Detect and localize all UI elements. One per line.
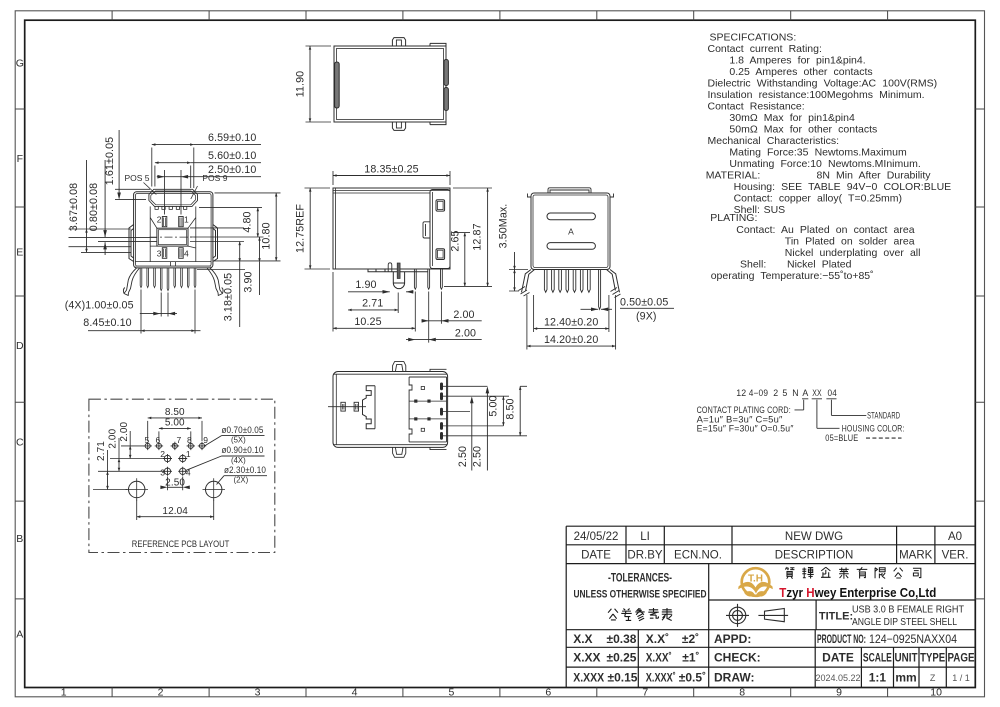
side view base strip xyxy=(368,269,428,272)
svg-text:8.45±0.10: 8.45±0.10 xyxy=(83,317,131,329)
logo wings xyxy=(738,582,773,594)
right edge pin pads xyxy=(440,383,443,440)
svg-text:UNIT: UNIT xyxy=(895,651,919,665)
svg-text:X.XX: X.XX xyxy=(573,651,600,665)
svg-text:Unmating Force:10 Newtoms.MI: Unmating Force:10 Newtoms.MInimum. xyxy=(729,158,920,170)
svg-text:A: A xyxy=(568,227,574,237)
specifications text block xyxy=(706,32,951,283)
top view top tab xyxy=(392,38,405,46)
svg-text:11.90: 11.90 xyxy=(295,71,307,97)
svg-text:POS 9: POS 9 xyxy=(202,173,227,183)
svg-text:4: 4 xyxy=(184,249,189,259)
svg-text:±0.38: ±0.38 xyxy=(607,632,637,646)
VIEW 4: rear view of connector xyxy=(498,188,675,350)
svg-text:USB 3.0 B FEMALE RIGHT: USB 3.0 B FEMALE RIGHT xyxy=(852,604,964,616)
svg-text:ECN.NO.: ECN.NO. xyxy=(674,550,722,562)
bottom view body xyxy=(333,372,448,448)
svg-text:(9X): (9X) xyxy=(636,311,657,323)
dim 18.35±0.25 xyxy=(333,171,450,185)
third angle projection symbol: cone xyxy=(758,609,788,622)
title block table grid xyxy=(566,526,975,687)
svg-text:Insulation resistance:100Mego: Insulation resistance:100Megohms Minimum… xyxy=(708,89,925,101)
dimension 11.90 xyxy=(306,46,332,122)
svg-text:10.25: 10.25 xyxy=(354,316,381,328)
svg-text:1.61±0.05: 1.61±0.05 xyxy=(104,137,116,185)
pcb holes row 2 (pins 2,1) xyxy=(163,454,187,463)
svg-text:(4X): (4X) xyxy=(231,456,246,465)
svg-text:(5X): (5X) xyxy=(231,435,246,444)
tolerance table chinese caption (drawn glyphs) xyxy=(608,608,672,621)
svg-text:24/05/22: 24/05/22 xyxy=(574,531,619,543)
svg-text:2: 2 xyxy=(773,388,778,398)
svg-text:8.50: 8.50 xyxy=(165,407,185,418)
svg-text:3.90: 3.90 xyxy=(243,271,255,292)
pcb dash-dot border xyxy=(89,399,275,552)
shell bottom interior lines xyxy=(135,262,211,267)
svg-text:1 / 1: 1 / 1 xyxy=(952,673,970,683)
contact pads xyxy=(414,400,417,403)
svg-text:2: 2 xyxy=(157,215,162,225)
svg-text:8: 8 xyxy=(739,687,745,699)
svg-text:DATE: DATE xyxy=(822,651,854,665)
svg-text:8: 8 xyxy=(187,435,192,445)
part number breakdown xyxy=(697,388,905,443)
third angle projection symbol: circle-cross xyxy=(726,604,749,627)
svg-text:NEW DWG: NEW DWG xyxy=(785,531,843,543)
leader lines to dims xyxy=(443,386,527,436)
top view bottom tab xyxy=(392,122,405,130)
dim 12.75REF xyxy=(305,188,331,269)
rear skirt left xyxy=(522,270,535,293)
cavity side walls xyxy=(150,206,196,261)
board lock peg xyxy=(393,272,404,289)
svg-text:±1˚: ±1˚ xyxy=(682,651,699,665)
title text xyxy=(852,604,964,629)
svg-text:4.80: 4.80 xyxy=(242,211,254,232)
svg-text:7: 7 xyxy=(642,687,648,699)
svg-text:2.00: 2.00 xyxy=(455,328,476,340)
svg-text:A0: A0 xyxy=(948,531,962,543)
svg-text:MARK: MARK xyxy=(899,550,933,562)
svg-text:T.H: T.H xyxy=(748,574,763,585)
svg-text:2: 2 xyxy=(158,687,164,699)
svg-text:DATE: DATE xyxy=(581,550,611,562)
svg-text:12.04: 12.04 xyxy=(162,506,188,517)
svg-text:2024.05.22: 2024.05.22 xyxy=(815,673,860,683)
svg-text:124−0925NAXX04: 124−0925NAXX04 xyxy=(869,634,958,646)
svg-text:5.00: 5.00 xyxy=(488,395,500,416)
front shell outer xyxy=(134,192,213,268)
svg-text:B: B xyxy=(16,533,23,545)
side view body xyxy=(333,188,450,269)
svg-text:Tzyr Hwey Enterprise Co,Ltd: Tzyr Hwey Enterprise Co,Ltd xyxy=(779,585,936,600)
svg-text:E=15u″ F=30u″ O=0.5u″: E=15u″ F=30u″ O=0.5u″ xyxy=(697,424,794,434)
svg-text:MATERIAL:: MATERIAL: xyxy=(706,170,761,182)
svg-text:X.XX˚: X.XX˚ xyxy=(646,651,672,665)
svg-text:Contact Resistance:: Contact Resistance: xyxy=(708,101,805,113)
top view body xyxy=(334,46,446,122)
contact 1 xyxy=(179,217,184,227)
pcb row extension lines xyxy=(93,446,164,490)
svg-text:14.20±0.20: 14.20±0.20 xyxy=(544,334,598,346)
svg-text:3: 3 xyxy=(157,249,162,259)
top view right corner steps xyxy=(430,43,446,124)
svg-text:DESCRIPTION: DESCRIPTION xyxy=(775,550,854,562)
dim 8.50 xyxy=(519,386,521,436)
svg-text:9: 9 xyxy=(836,687,842,699)
svg-text:Mating Force:35 Newtoms.Maxi: Mating Force:35 Newtoms.Maximum xyxy=(729,147,907,159)
svg-text:Nickel underplating over al: Nickel underplating over all xyxy=(785,247,921,259)
border column ticks bottom xyxy=(112,688,888,697)
rear pins xyxy=(544,270,590,293)
svg-text:0.50±0.05: 0.50±0.05 xyxy=(620,296,668,308)
svg-text:2.71: 2.71 xyxy=(96,441,107,461)
svg-text:10.80: 10.80 xyxy=(260,222,272,249)
svg-text:X.X˚: X.X˚ xyxy=(646,632,669,646)
svg-text:1: 1 xyxy=(184,215,189,225)
company name chinese (drawn glyphs) xyxy=(785,567,920,579)
svg-text:REFERENCE PCB LAYOUT: REFERENCE PCB LAYOUT xyxy=(132,539,230,550)
svg-text:3.18±0.05: 3.18±0.05 xyxy=(223,273,235,321)
svg-text:±0.15: ±0.15 xyxy=(608,671,638,685)
svg-text:10: 10 xyxy=(930,687,942,699)
bottom view tab bottom xyxy=(393,447,406,457)
svg-text:(4X)1.00±0.05: (4X)1.00±0.05 xyxy=(65,300,134,312)
right extension lines xyxy=(190,193,281,270)
svg-text:Nickel Plated: Nickel Plated xyxy=(787,259,852,271)
pcb mounting holes xyxy=(126,478,226,500)
svg-text:Tin Plated on solder area: Tin Plated on solder area xyxy=(785,236,915,248)
svg-text:TYPE: TYPE xyxy=(920,651,945,665)
svg-text:TITLE:: TITLE: xyxy=(819,611,853,623)
svg-text:3.67±0.08: 3.67±0.08 xyxy=(68,183,80,231)
tolerances header xyxy=(574,573,707,601)
left slot squares xyxy=(341,402,345,411)
svg-text:2.71: 2.71 xyxy=(362,298,383,310)
svg-text:VER.: VER. xyxy=(942,550,969,562)
svg-text:±0.5˚: ±0.5˚ xyxy=(679,671,706,685)
svg-text:ø2.30±0.10: ø2.30±0.10 xyxy=(224,465,266,476)
svg-text:Z: Z xyxy=(930,673,936,683)
svg-text:Contact current Rating:: Contact current Rating: xyxy=(708,43,822,55)
rear top corner ears xyxy=(528,194,614,198)
VIEW 1: top view of connector xyxy=(295,38,449,131)
tongue outline xyxy=(363,386,376,429)
svg-text:9: 9 xyxy=(203,435,208,445)
svg-text:D: D xyxy=(16,340,24,352)
rear view top tab xyxy=(548,188,591,193)
dim 5.00 xyxy=(502,396,504,426)
VIEW 3: side view of connector xyxy=(295,163,493,342)
contact 3 xyxy=(162,248,167,259)
zone numbers bottom xyxy=(61,687,942,699)
svg-text:ANGLE DIP STEEL SHELL: ANGLE DIP STEEL SHELL xyxy=(852,616,957,628)
svg-text:0.25 Amperes other contacts: 0.25 Amperes other contacts xyxy=(729,66,872,78)
svg-text:2.65: 2.65 xyxy=(450,230,462,251)
roof teeth pins 5-9 xyxy=(155,206,187,209)
svg-text:-TOLERANCES-: -TOLERANCES- xyxy=(608,573,672,585)
svg-text:Contact: copper alloy( T=0.: Contact: copper alloy( T=0.25mm) xyxy=(734,193,902,205)
ninth pin long xyxy=(599,270,601,310)
svg-text:0.80±0.08: 0.80±0.08 xyxy=(88,183,100,231)
svg-text:Housing: SEE TABLE 94V−0 C: Housing: SEE TABLE 94V−0 COLOR:BLUE xyxy=(734,181,952,193)
bottom right edge bumps xyxy=(430,369,447,449)
side view rear plate xyxy=(430,190,450,269)
svg-text:04: 04 xyxy=(828,388,838,398)
svg-text:X.XXX: X.XXX xyxy=(573,671,604,685)
tongue xyxy=(157,228,188,246)
svg-text:XX: XX xyxy=(812,388,822,398)
zone letters left xyxy=(16,57,24,640)
svg-text:12.87: 12.87 xyxy=(472,223,484,250)
svg-text:Contact: Au Plated on cont: Contact: Au Plated on contact area xyxy=(736,224,914,236)
svg-text:6.59±0.10: 6.59±0.10 xyxy=(208,132,256,144)
svg-text:ø0.70±0.05: ø0.70±0.05 xyxy=(222,425,264,436)
svg-text:DR.BY: DR.BY xyxy=(627,550,662,562)
svg-text:SUS: SUS xyxy=(764,204,786,216)
plate square hole top xyxy=(436,200,445,211)
plate latch bump xyxy=(423,222,430,238)
svg-text:SPECIFCATIONS:: SPECIFCATIONS: xyxy=(710,32,797,44)
svg-text:LI: LI xyxy=(640,531,650,543)
svg-text:2.00: 2.00 xyxy=(108,428,119,448)
dim 2.65 xyxy=(452,232,470,234)
svg-text:1:1: 1:1 xyxy=(869,671,887,685)
svg-text:30mΩ Max for pin1&pin4: 30mΩ Max for pin1&pin4 xyxy=(729,112,855,124)
svg-text:APPD:: APPD: xyxy=(714,632,751,646)
border row ticks left xyxy=(15,109,25,599)
svg-text:05=BLUE: 05=BLUE xyxy=(825,433,858,443)
svg-text:DRAW:: DRAW: xyxy=(714,671,754,685)
svg-text:2.50: 2.50 xyxy=(457,446,469,467)
svg-text:5: 5 xyxy=(145,435,150,445)
svg-text:8.50: 8.50 xyxy=(504,398,516,419)
top view right latch bars xyxy=(444,60,448,86)
svg-text:POS 5: POS 5 xyxy=(125,173,150,183)
part number leader lines xyxy=(795,399,902,438)
contact block xyxy=(409,377,446,442)
svg-text:1.8 Amperes for pin1&pin4.: 1.8 Amperes for pin1&pin4. xyxy=(729,55,865,67)
bottom view tab top xyxy=(393,362,406,372)
svg-text:1: 1 xyxy=(186,449,191,459)
title block header row1 xyxy=(574,531,969,562)
svg-text:3: 3 xyxy=(255,687,261,699)
svg-text:4−09: 4−09 xyxy=(749,388,769,398)
svg-text:(2X): (2X) xyxy=(234,476,249,485)
svg-text:N: N xyxy=(792,388,799,398)
svg-text:5: 5 xyxy=(448,687,454,699)
svg-text:12: 12 xyxy=(736,388,746,398)
svg-text:2.00: 2.00 xyxy=(453,309,474,321)
svg-text:X.XXX˚: X.XXX˚ xyxy=(646,671,676,685)
svg-text:CHECK:: CHECK: xyxy=(714,651,761,665)
company name english xyxy=(779,585,936,600)
svg-text:18.35±0.25: 18.35±0.25 xyxy=(364,163,418,175)
svg-text:Dielectric Withstanding Volt: Dielectric Withstanding Voltage:AC 100V(… xyxy=(708,78,938,90)
svg-text:5: 5 xyxy=(782,388,787,398)
svg-text:Shell:: Shell: xyxy=(740,259,766,271)
svg-text:2.50: 2.50 xyxy=(472,446,484,467)
svg-text:2.00: 2.00 xyxy=(119,421,130,441)
svg-text:±2˚: ±2˚ xyxy=(682,632,699,646)
solder legs (9) xyxy=(140,268,196,291)
svg-text:5.60±0.10: 5.60±0.10 xyxy=(208,150,256,162)
svg-text:ø0.90±0.10: ø0.90±0.10 xyxy=(222,445,264,456)
rear skirt right xyxy=(607,270,620,293)
company logo ring xyxy=(738,568,773,596)
svg-text:HOUSING COLOR:: HOUSING COLOR: xyxy=(842,424,905,434)
shell side legs bent xyxy=(123,268,139,296)
svg-text:SCALE: SCALE xyxy=(863,651,892,665)
svg-text:6: 6 xyxy=(545,687,551,699)
contact 2 xyxy=(162,217,167,227)
svg-text:X.X: X.X xyxy=(573,632,592,646)
svg-text:UNLESS OTHERWISE SPECIFIED: UNLESS OTHERWISE SPECIFIED xyxy=(574,589,707,601)
svg-text:3: 3 xyxy=(160,468,165,478)
tolerance values xyxy=(573,611,974,685)
left extension lines xyxy=(69,229,157,252)
svg-text:C: C xyxy=(16,437,24,449)
svg-text:12.40±0.20: 12.40±0.20 xyxy=(544,316,598,328)
pcb holes row 3 (pins 3,4) xyxy=(163,467,187,476)
svg-text:PLATING:: PLATING: xyxy=(710,212,757,224)
contact 4 xyxy=(179,248,184,259)
svg-text:Mechanical Characteristics:: Mechanical Characteristics: xyxy=(708,135,840,147)
svg-text:±0.25: ±0.25 xyxy=(607,651,637,665)
draw row small values xyxy=(815,673,969,683)
svg-text:12.75REF: 12.75REF xyxy=(295,204,307,253)
solder pins xyxy=(414,269,416,289)
svg-text:mm: mm xyxy=(895,671,916,685)
left side bump xyxy=(129,225,134,262)
svg-text:8N Min After Durability: 8N Min After Durability xyxy=(817,170,932,182)
svg-text:7: 7 xyxy=(177,435,182,445)
tongue centerline xyxy=(150,236,196,238)
rear view body xyxy=(531,193,610,270)
svg-text:A: A xyxy=(802,388,808,398)
svg-text:G: G xyxy=(16,57,24,69)
svg-text:5.00: 5.00 xyxy=(165,418,185,429)
VIEW 6: reference PCB layout xyxy=(89,399,275,552)
svg-text:operating Temperature:−55˚to+: operating Temperature:−55˚to+85˚ xyxy=(711,270,874,282)
svg-text:PAGE: PAGE xyxy=(948,651,975,665)
plate square hole bottom xyxy=(436,249,445,260)
right side bump xyxy=(213,225,218,262)
dim 12.87 xyxy=(444,188,492,286)
svg-text:F: F xyxy=(17,153,23,165)
VIEW 2: front view of connector xyxy=(65,130,281,334)
rear slot upper xyxy=(547,213,595,220)
pcb hole numbers xyxy=(145,435,209,478)
border row ticks right xyxy=(975,109,984,599)
svg-text:6: 6 xyxy=(156,435,161,445)
top view left slot xyxy=(335,62,340,108)
svg-text:PRODUCT NO:: PRODUCT NO: xyxy=(817,632,866,646)
svg-text:3.50Max.: 3.50Max. xyxy=(498,204,510,249)
pad trace lines xyxy=(409,401,446,419)
front roof (plug cavity top) xyxy=(149,189,198,206)
pcb holes row 1 (pins 5-9) xyxy=(144,442,207,450)
svg-text:1: 1 xyxy=(61,687,67,699)
VIEW 5: bottom view of connector xyxy=(328,362,527,471)
svg-text:A: A xyxy=(16,629,23,641)
svg-text:1.90: 1.90 xyxy=(355,279,376,291)
svg-text:STANDARD: STANDARD xyxy=(867,410,900,420)
svg-text:4: 4 xyxy=(352,687,358,699)
svg-text:2: 2 xyxy=(160,449,165,459)
svg-text:E: E xyxy=(16,246,23,258)
rear slot lower xyxy=(547,243,595,250)
svg-text:50mΩ Max for other contact: 50mΩ Max for other contacts xyxy=(729,124,877,136)
